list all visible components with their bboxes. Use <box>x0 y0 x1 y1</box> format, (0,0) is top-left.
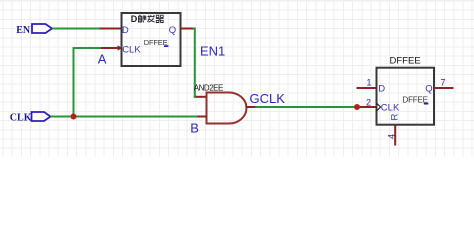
port EN <box>16 24 52 36</box>
svg-text:GCLK: GCLK <box>250 91 286 106</box>
pin U2 bottom input stub <box>198 116 207 118</box>
port CLK <box>10 112 51 124</box>
wire net GCLK <box>255 106 357 108</box>
svg-text:CLK: CLK <box>122 44 141 55</box>
svg-text:Q: Q <box>169 25 176 36</box>
svg-text:A: A <box>98 52 107 67</box>
svg-text:D: D <box>122 25 129 36</box>
svg-text:4: 4 <box>387 134 397 139</box>
svg-text:D: D <box>378 84 385 95</box>
svg-text:R: R <box>390 114 401 121</box>
pin U2A top input stub <box>194 96 207 98</box>
U1 clock wedge <box>118 45 122 51</box>
D flip-flop U1 box <box>122 13 181 66</box>
U1 title D flip-flop (Chinese) <box>131 14 164 24</box>
svg-text:B: B <box>190 120 199 135</box>
pin U2 output stub <box>246 106 256 108</box>
pin U3.7 stub <box>434 87 454 89</box>
pin U3.2 stub <box>357 106 377 108</box>
pin U1.D stub <box>100 28 122 30</box>
pin U1.Q stub <box>181 28 194 30</box>
svg-text:CLK: CLK <box>10 113 32 124</box>
svg-text:EN1: EN1 <box>200 44 225 59</box>
AND gate U2 AND2EE <box>207 93 247 124</box>
glyph qi <box>156 15 164 22</box>
svg-text:2: 2 <box>366 97 371 107</box>
wire CLK horizontal (net B) <box>51 116 198 118</box>
svg-text:Q: Q <box>425 84 432 95</box>
svg-text:DFFEE: DFFEE <box>390 55 421 66</box>
glyph chu <box>139 15 146 22</box>
pin U1.CLK stub <box>101 47 122 49</box>
pin U3.1 stub <box>357 87 377 89</box>
wire EN to U1.D <box>52 28 100 30</box>
junction on CLK net <box>71 114 77 120</box>
U3 clock wedge <box>377 104 381 111</box>
svg-text:CLK: CLK <box>381 103 400 114</box>
glyph fa <box>148 15 155 22</box>
wire net EN1 vertical <box>194 28 196 98</box>
D flip-flop U3 box <box>377 68 435 125</box>
pin U3.4 stub <box>394 125 396 146</box>
wire node A vertical <box>73 48 75 118</box>
U1 designator underscore <box>164 45 168 47</box>
wire node A horizontal <box>73 47 102 49</box>
svg-text:AND2EE: AND2EE <box>194 83 223 92</box>
junction at U3 pin 2 <box>354 104 360 110</box>
svg-text:EN: EN <box>16 25 31 36</box>
svg-text:7: 7 <box>441 77 446 87</box>
svg-text:1: 1 <box>367 77 372 87</box>
U3 designator underscore <box>424 103 429 105</box>
svg-text:D: D <box>131 14 138 24</box>
